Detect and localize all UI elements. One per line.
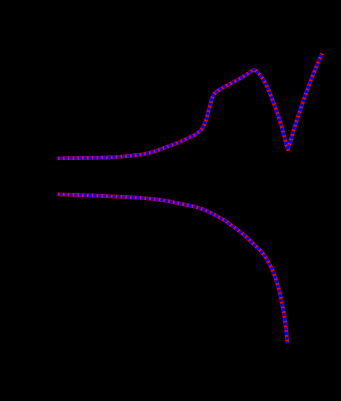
lower curve: red solid line <box>57 194 287 343</box>
upper curve: blue dashed line overlay <box>57 53 323 158</box>
upper curve: red solid line <box>57 53 323 158</box>
lower curve: blue dashed line overlay <box>57 194 287 343</box>
